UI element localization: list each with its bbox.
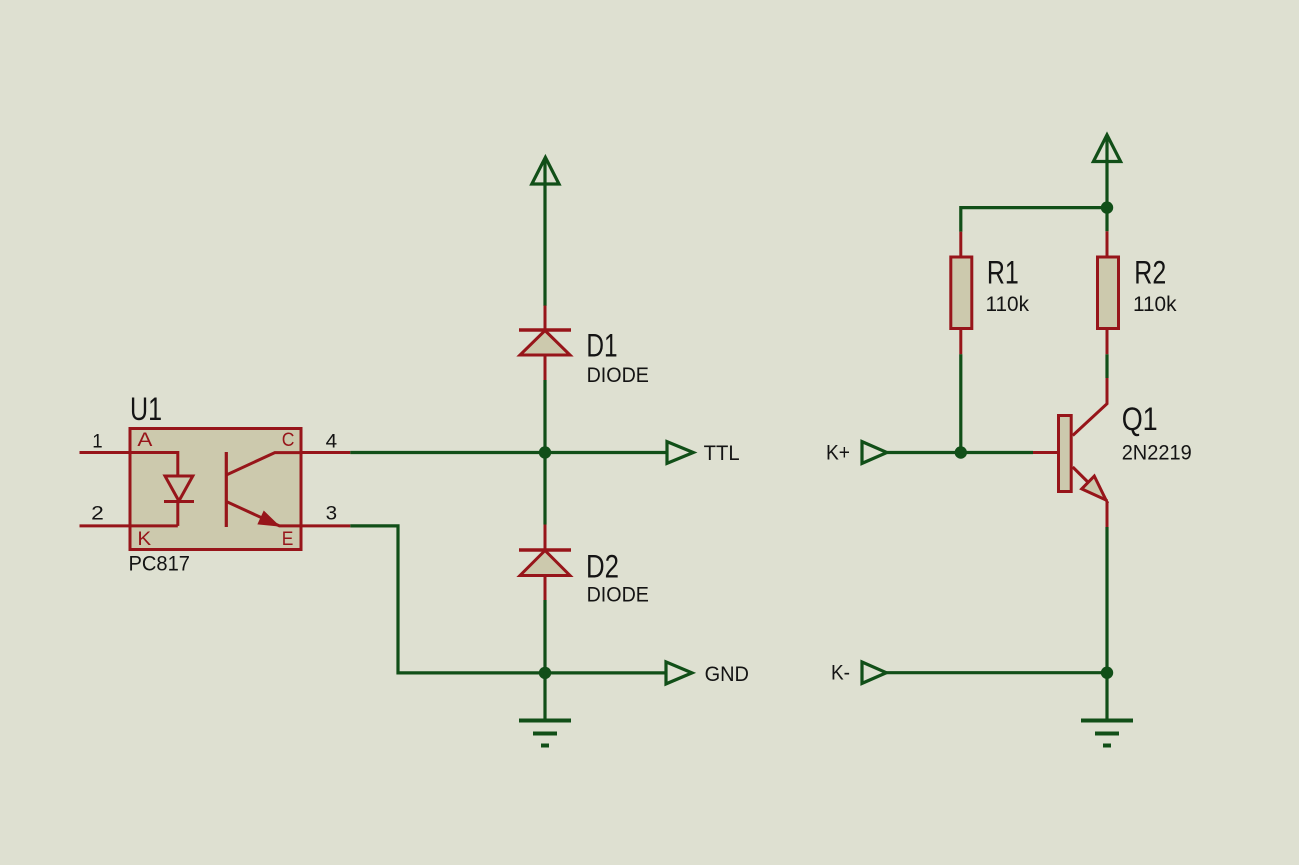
wire Q1 emitter down [1106, 501, 1109, 527]
U1 pin 4 wire [302, 451, 351, 454]
svg-text:K+: K+ [826, 441, 850, 465]
U1 pin 2 wire [80, 524, 129, 527]
wire D1 to TTL node [543, 380, 546, 453]
transistor Q1 emitter arrowhead [1082, 476, 1106, 500]
resistor R1 body [951, 257, 972, 329]
diode D1 bottom pin [544, 355, 547, 380]
diode D2 bottom pin [544, 576, 547, 601]
svg-text:K-: K- [831, 661, 850, 685]
optocoupler U1 body [130, 429, 301, 550]
U1 pin 3 wire [302, 524, 351, 527]
wire K- node to ground [1105, 673, 1108, 719]
transistor Q1 emitter pin [1073, 467, 1107, 501]
junction dot base node [955, 446, 967, 458]
U1 phototransistor emitter [226, 502, 301, 526]
svg-text:R2: R2 [1134, 254, 1166, 290]
svg-text:C: C [282, 429, 295, 451]
power terminal (middle) [532, 157, 559, 184]
junction dot GND node [539, 667, 551, 679]
wire R1 to base node [959, 354, 962, 452]
resistor R2 bottom pin [1106, 330, 1109, 355]
U1 internal LED triangle [165, 476, 193, 501]
junction dot TTL node [539, 446, 551, 458]
svg-text:1: 1 [92, 430, 102, 452]
GND terminal arrow [666, 662, 692, 684]
ground symbol (right) [1081, 719, 1133, 723]
diode D1 cathode bar [519, 328, 571, 332]
svg-text:K: K [137, 528, 151, 550]
TTL terminal arrow [667, 442, 693, 464]
wire R2 to Q1 collector [1105, 354, 1108, 378]
diode D1 top pin [544, 306, 547, 331]
U1 phototransistor collector [226, 453, 301, 475]
svg-text:110k: 110k [1133, 292, 1177, 316]
diode D2 triangle [520, 551, 570, 576]
U1 internal LED cathode bar [164, 500, 194, 503]
svg-text:DIODE: DIODE [587, 363, 649, 387]
diode D2 top pin [544, 525, 547, 551]
wire GND node to ground [543, 673, 546, 719]
wire U1 pin4 to TTL node [350, 451, 545, 454]
transistor Q1 base pin [1033, 451, 1057, 454]
svg-text:DIODE: DIODE [587, 583, 649, 607]
wire E branch from pin3 [350, 526, 545, 673]
wire K- to ground node [886, 671, 1107, 674]
wire to GND terminal [545, 671, 666, 674]
wire top node to R1 [961, 208, 1107, 232]
power terminal (right) [1093, 135, 1120, 162]
U1 phototransistor emitter arrowhead [258, 511, 279, 526]
svg-text:E: E [282, 528, 294, 550]
U1 internal LED anode wire [129, 453, 178, 478]
K+ terminal arrow [862, 442, 887, 464]
svg-text:110k: 110k [986, 292, 1030, 316]
resistor R2 body [1098, 257, 1119, 329]
transistor Q1 base bar [1059, 416, 1072, 492]
svg-text:3: 3 [326, 502, 338, 524]
svg-text:PC817: PC817 [129, 552, 191, 576]
svg-text:GND: GND [705, 662, 749, 686]
ground symbol (middle) [519, 719, 571, 723]
transistor Q1 collector pin [1073, 378, 1107, 436]
U1 phototransistor base bar [225, 452, 228, 527]
resistor R1 top pin [959, 232, 962, 256]
svg-text:D1: D1 [586, 328, 617, 364]
wire power to D1 [543, 159, 546, 306]
wire top node to R2 [1105, 208, 1108, 232]
wire power to top node [1105, 136, 1108, 208]
K- terminal arrow [862, 662, 886, 683]
U1 internal LED cathode wire [176, 502, 179, 526]
U1 pin 1 wire [80, 451, 129, 454]
svg-text:R1: R1 [987, 254, 1019, 290]
diode D1 triangle [520, 331, 570, 356]
junction dot K- node [1101, 667, 1113, 679]
resistor R1 bottom pin [959, 330, 962, 355]
wire to TTL terminal [545, 451, 667, 454]
svg-text:2: 2 [91, 502, 104, 524]
wire D2 to GND node [543, 600, 546, 673]
svg-text:A: A [137, 429, 152, 451]
svg-text:4: 4 [326, 430, 338, 452]
wire K+ to base [887, 451, 1033, 454]
U1 internal cathode horizontal wire [129, 524, 178, 527]
junction dot top node [1101, 201, 1113, 213]
resistor R2 top pin [1106, 231, 1109, 256]
svg-text:D2: D2 [586, 549, 619, 585]
diode D2 cathode bar [519, 548, 571, 552]
svg-text:U1: U1 [130, 391, 162, 427]
svg-text:2N2219: 2N2219 [1122, 441, 1192, 465]
svg-text:TTL: TTL [704, 441, 740, 465]
wire TTL node to D2 [543, 453, 546, 525]
svg-text:Q1: Q1 [1122, 401, 1158, 437]
wire emitter to K- node [1105, 527, 1108, 673]
